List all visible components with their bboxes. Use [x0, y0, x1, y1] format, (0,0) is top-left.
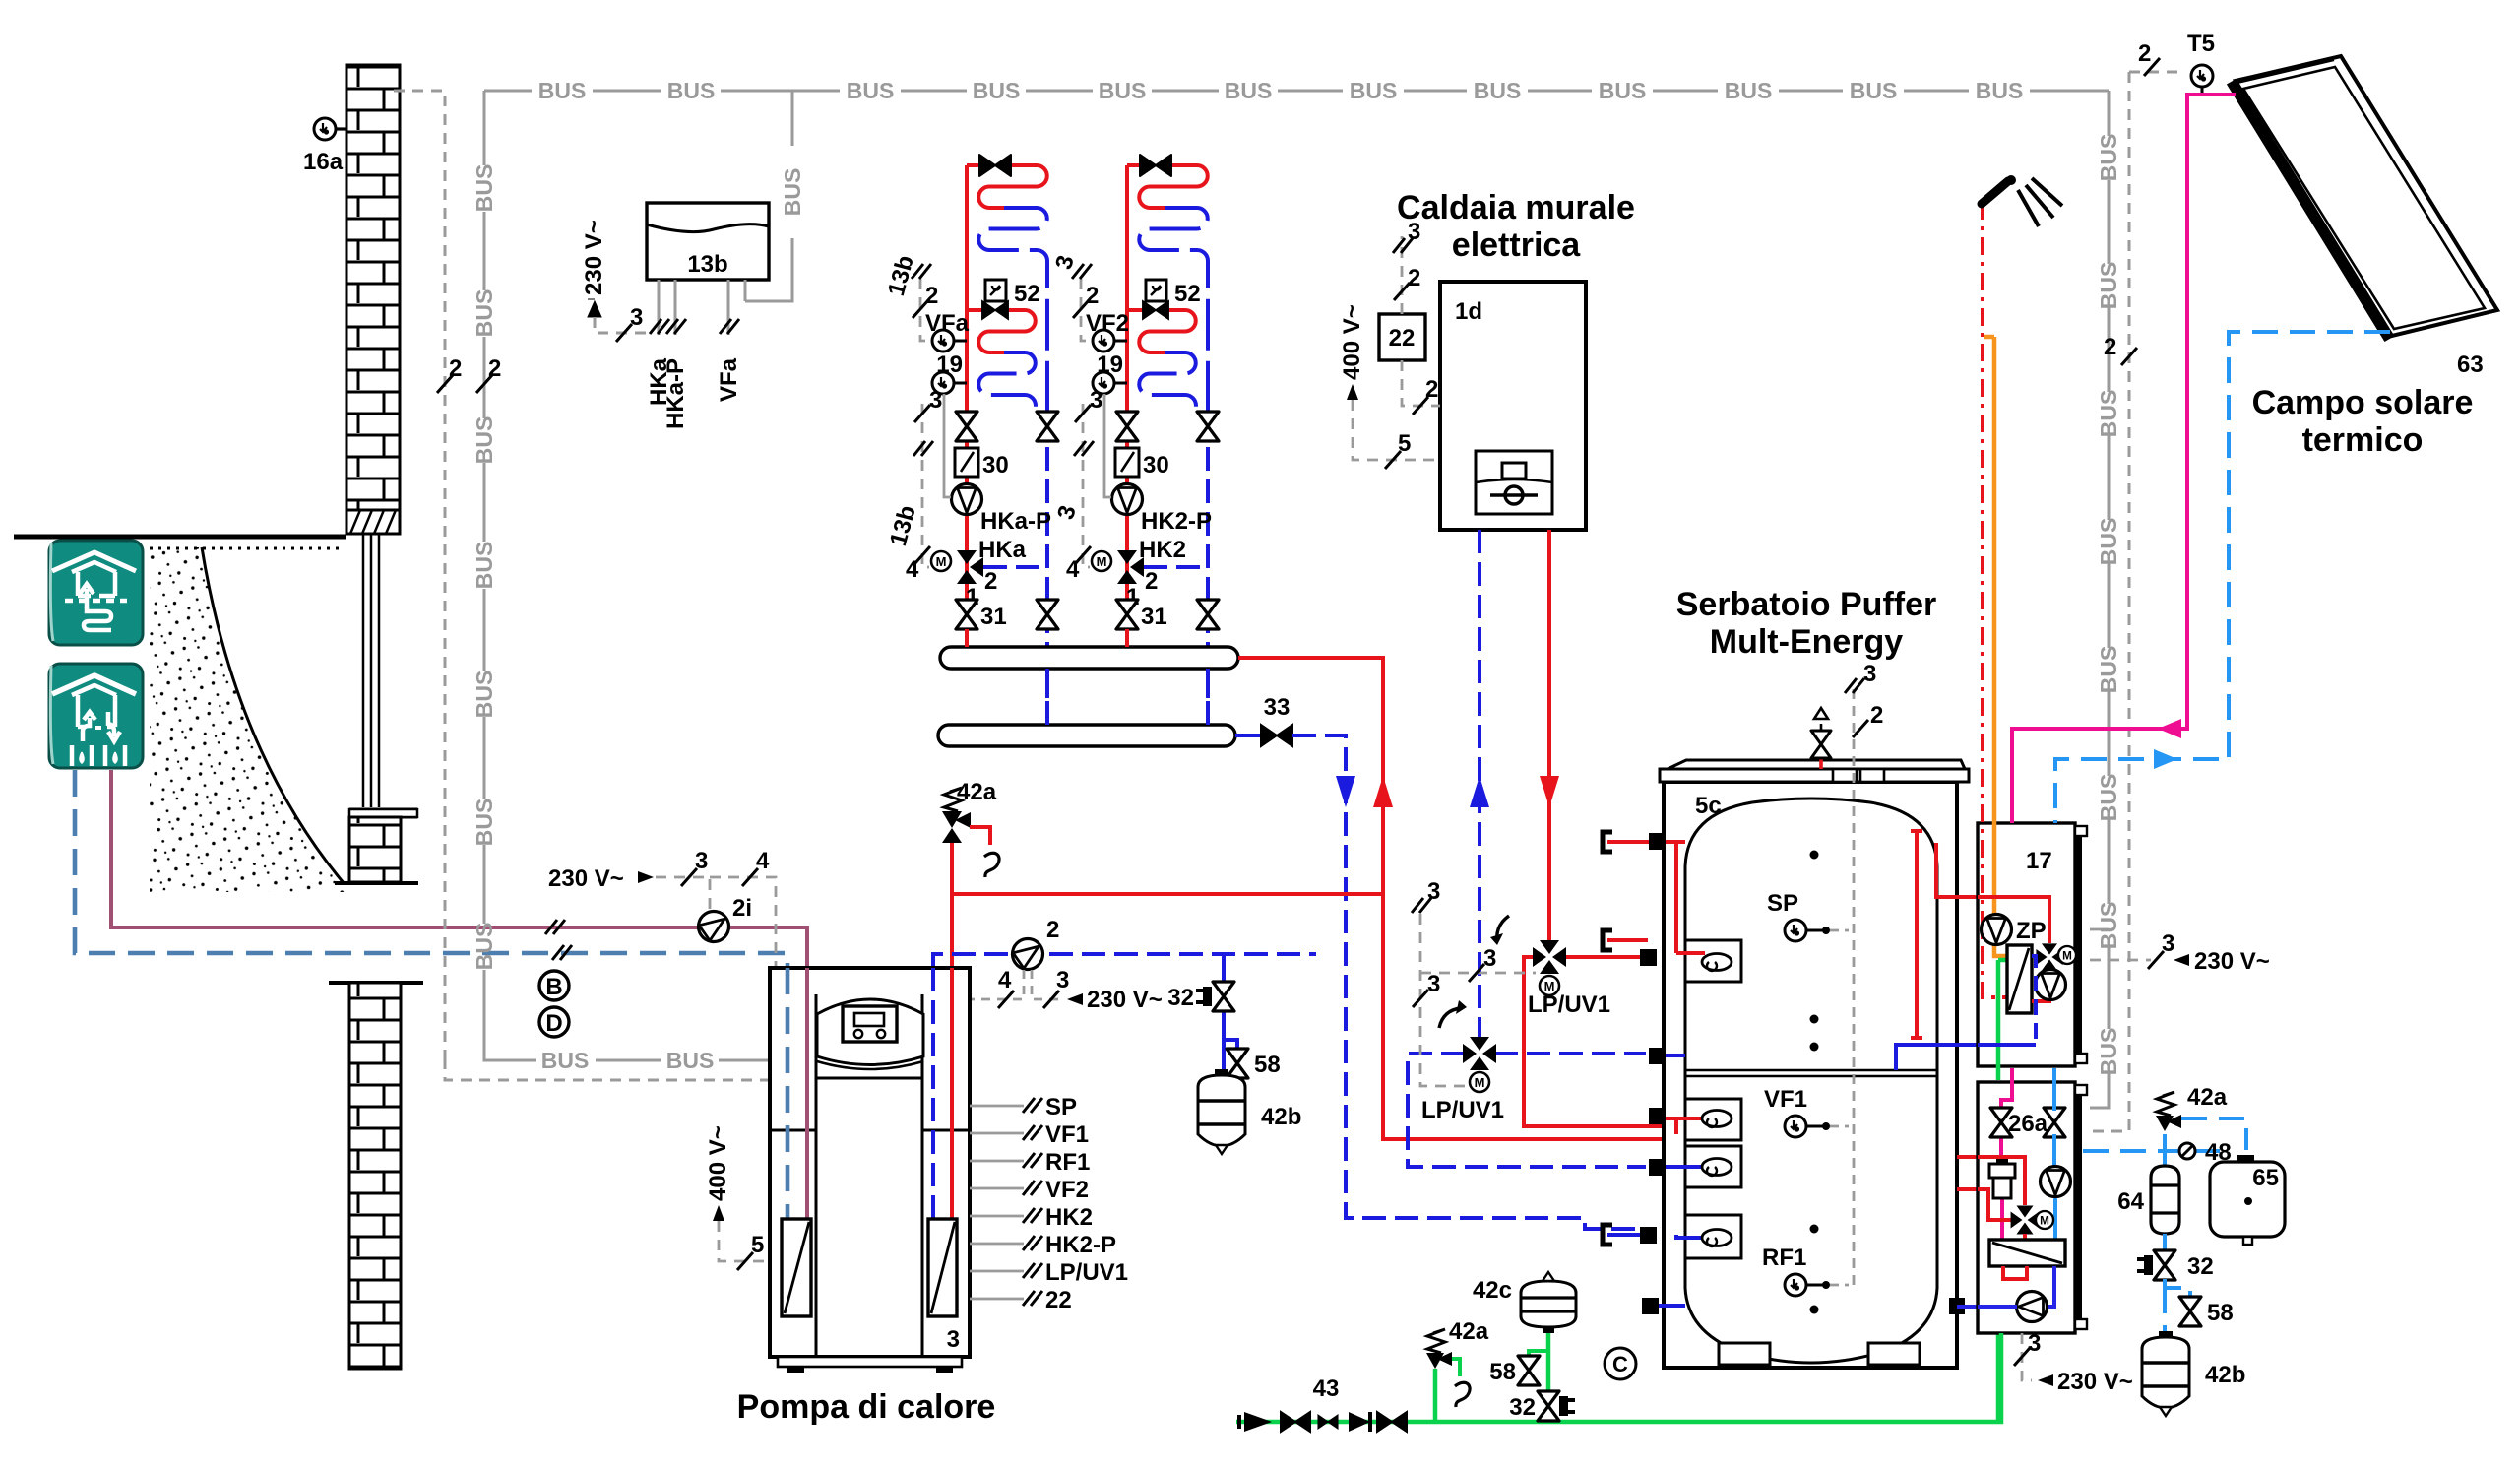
- wire red 42a outlet: [970, 827, 990, 845]
- svg-text:termico: termico: [2302, 421, 2424, 459]
- wire blue inside heat pump: [931, 968, 935, 1219]
- tank port box hot top: [1685, 940, 1741, 982]
- valve 58 left: [1227, 1049, 1248, 1078]
- sensor 19 circuit2: [1114, 382, 1127, 385]
- wire gray dashed from wall top: [394, 91, 445, 1058]
- wire gray sensor spine: [1853, 689, 1856, 1285]
- svg-text:BUS: BUS: [1725, 78, 1773, 103]
- wire gray 22 to boiler: [1402, 360, 1440, 406]
- wire gray 400V to boiler: [1353, 400, 1440, 460]
- wire 13b pin HKa: [658, 280, 661, 335]
- svg-text:5c: 5c: [1695, 793, 1722, 819]
- wire red valve to exchanger: [2023, 1234, 2027, 1240]
- diverter valve LP/UV1 upper: [1533, 940, 1566, 974]
- svg-text:Caldaia murale: Caldaia murale: [1397, 189, 1635, 226]
- svg-text:BUS: BUS: [2096, 390, 2121, 438]
- valve bottom fourth: [1377, 1412, 1407, 1432]
- floor loop circuit1 upper blue: [978, 208, 1047, 415]
- wire lightblue 32 to 42b: [2165, 1279, 2190, 1335]
- svg-text:VFa: VFa: [925, 310, 970, 337]
- safety group 42a bottom: [1433, 1369, 1438, 1422]
- wire BUS left vertical: [483, 91, 486, 1039]
- svg-text:HKa-P: HKa-P: [662, 358, 689, 429]
- tank 65: [2210, 1162, 2285, 1237]
- air separator: [1989, 1164, 2015, 1178]
- wires gray pump 2: [971, 970, 1024, 999]
- svg-text:Pompa di calore: Pompa di calore: [737, 1388, 996, 1426]
- svg-text:SP: SP: [1767, 890, 1798, 917]
- pump 2: [1006, 932, 1048, 975]
- tank safety valve: [1819, 754, 1823, 769]
- sensor VFa: [954, 340, 967, 343]
- svg-text:3: 3: [630, 304, 643, 331]
- svg-text:26a: 26a: [2008, 1111, 2048, 1137]
- floor loop circuit2 lower blue: [1139, 352, 1208, 415]
- svg-text:22: 22: [1389, 325, 1416, 352]
- svg-text:2i: 2i: [732, 895, 752, 922]
- wire blue return circuit1 vertical: [1045, 415, 1049, 725]
- svg-text:19: 19: [1097, 352, 1123, 378]
- relay 22 box: [1379, 314, 1425, 360]
- svg-text:BUS: BUS: [973, 78, 1021, 103]
- tank port box lower blue: [1685, 1215, 1741, 1258]
- svg-text:5: 5: [1398, 430, 1411, 457]
- svg-text:3: 3: [1863, 661, 1876, 687]
- heat pump unit 3: [770, 968, 970, 1357]
- expansion vessel 42c: [1546, 1329, 1551, 1415]
- tank inner vessel: [1685, 799, 1937, 1075]
- wire red dash-dot circulation: [1983, 202, 2007, 997]
- svg-text:VF2: VF2: [1086, 310, 1129, 337]
- heat pump terminal LP/UV1: [970, 1270, 1024, 1273]
- valve circuit2 return lower: [1197, 600, 1219, 629]
- svg-text:31: 31: [1141, 604, 1167, 630]
- svg-text:BUS: BUS: [472, 923, 497, 971]
- double slash on steel-blue: [552, 945, 572, 960]
- svg-text:4: 4: [756, 848, 770, 874]
- svg-text:400 V~: 400 V~: [1339, 304, 1365, 380]
- safety valve 42a right: [2156, 1092, 2181, 1131]
- heat pump terminal HK2: [970, 1215, 1024, 1218]
- svg-text:HKa: HKa: [978, 537, 1027, 563]
- brick wall middle column: [349, 817, 401, 882]
- wire 13b pin BUS: [744, 280, 747, 301]
- svg-text:BUS: BUS: [2096, 902, 2121, 950]
- svg-text:32: 32: [1509, 1394, 1536, 1421]
- expansion vessel 42b left: [1198, 1069, 1245, 1154]
- svg-text:2: 2: [1086, 283, 1099, 309]
- tank port box mid blue: [1685, 1146, 1741, 1187]
- svg-text:BUS: BUS: [1350, 78, 1398, 103]
- wire blue lower valve to tank: [1494, 1052, 1646, 1055]
- pump 17: [2036, 970, 2066, 1000]
- wires gray LP/UV1: [1420, 914, 1466, 1086]
- wire red valve to tank top port: [1565, 955, 1648, 959]
- svg-text:58: 58: [1254, 1052, 1281, 1078]
- valve circuit2 return: [1197, 412, 1219, 441]
- stub blue upper return: [1649, 1048, 1666, 1064]
- heat pump terminal RF1: [970, 1160, 1024, 1163]
- svg-text:BUS: BUS: [472, 416, 497, 465]
- wire red valve to tank mid port: [1524, 957, 1701, 1126]
- manifold supply: [940, 647, 1238, 669]
- svg-text:BUS: BUS: [1976, 78, 2024, 103]
- svg-text:31: 31: [980, 604, 1007, 630]
- tank level dots: [1810, 851, 1819, 860]
- svg-text:VF1: VF1: [1764, 1086, 1807, 1113]
- valve 26a right: [2044, 1108, 2065, 1137]
- wire BUS left corner to heat pump: [484, 1039, 770, 1060]
- boiler 1d box: [1440, 282, 1586, 530]
- wire blue branch to valve 58 left: [1224, 1040, 1237, 1050]
- floor loop circuit2 lower red: [1127, 310, 1196, 352]
- svg-text:BUS: BUS: [1225, 78, 1273, 103]
- svg-text:LP/UV1: LP/UV1: [1045, 1259, 1128, 1286]
- svg-text:2: 2: [1408, 265, 1420, 291]
- svg-text:16a: 16a: [303, 149, 344, 175]
- valve 32 bottom: [1538, 1391, 1559, 1421]
- svg-text:3: 3: [695, 848, 708, 874]
- arrow blue down: [1336, 776, 1355, 807]
- svg-text:4: 4: [998, 967, 1012, 993]
- svg-text:52: 52: [1174, 281, 1201, 307]
- earth stipple: [150, 547, 346, 892]
- svg-text:3: 3: [2162, 930, 2174, 957]
- wire red circuit1 to manifold: [965, 629, 969, 647]
- wire blue mixer link circuit2: [1144, 565, 1208, 569]
- heat pump display panel: [817, 999, 923, 1065]
- sensor VF2: [1114, 340, 1127, 343]
- svg-text:HK2: HK2: [1139, 537, 1186, 563]
- thermostat valve 52 circuit2: [1146, 280, 1166, 301]
- svg-text:T5: T5: [2187, 31, 2215, 57]
- svg-text:52: 52: [1014, 281, 1040, 307]
- wire BUS 13b drop: [745, 91, 792, 301]
- svg-text:22: 22: [1045, 1287, 1072, 1313]
- valve circuit1 return: [1037, 412, 1058, 441]
- floor loop circuit2 upper blue: [1139, 208, 1208, 415]
- stub blue bottom right: [1949, 1298, 1965, 1314]
- window frame: [363, 534, 379, 807]
- wire purple inside heat pump: [805, 968, 809, 1219]
- wire blue return circuit2 vertical: [1206, 415, 1210, 725]
- svg-text:230 V~: 230 V~: [548, 865, 624, 892]
- heat pump terminal HK2-P: [970, 1243, 1024, 1246]
- brick wall lower column: [329, 981, 423, 985]
- double slash pin HKa: [650, 319, 669, 334]
- svg-text:LP/UV1: LP/UV1: [1528, 991, 1610, 1018]
- wire red caldaia supply: [1547, 530, 1551, 941]
- svg-text:C: C: [1612, 1352, 1628, 1376]
- svg-text:63: 63: [2457, 352, 2484, 378]
- svg-text:230 V~: 230 V~: [2057, 1369, 2133, 1395]
- wire gray 22 top: [1401, 236, 1404, 314]
- svg-text:3: 3: [947, 1326, 960, 1353]
- svg-text:3: 3: [929, 387, 942, 414]
- wire green cold feed: [1996, 960, 2001, 1422]
- heat exchanger 17: [2007, 945, 2032, 1013]
- mixing valve solar: [2011, 1206, 2040, 1235]
- valve circuit2 supply: [1116, 412, 1138, 441]
- slash 2 on gray dashed left: [437, 375, 453, 393]
- svg-text:BUS: BUS: [1099, 78, 1147, 103]
- wire magenta solar supply inside: [2001, 1068, 2012, 1240]
- wire 13b pin VFa: [727, 280, 730, 335]
- sensor 19 circuit1: [954, 382, 967, 385]
- wire steel-blue inside heat pump: [786, 968, 790, 1219]
- wire blue heat pump return riser: [933, 954, 1316, 968]
- wire lightblue solar return: [2055, 332, 2390, 823]
- wire steel-blue brine return: [75, 770, 787, 1219]
- heat pump inner column: [816, 994, 922, 1357]
- wall sill hatch: [346, 510, 400, 534]
- wire red inside wall top: [1607, 842, 1685, 953]
- svg-text:5: 5: [751, 1232, 764, 1258]
- floor loop circuit2 upper red: [1127, 165, 1208, 208]
- icon well heat source: [49, 664, 143, 768]
- svg-text:BUS: BUS: [472, 671, 497, 719]
- svg-text:BUS: BUS: [2096, 1028, 2121, 1076]
- svg-text:Serbatoio Puffer: Serbatoio Puffer: [1676, 586, 1936, 623]
- wire lightblue solar return inside: [2054, 1068, 2055, 1240]
- check valve: [1349, 1412, 1370, 1432]
- icon ground-loop heat source: [49, 541, 143, 645]
- boiler pump module: [1476, 451, 1552, 514]
- svg-text:BUS: BUS: [538, 78, 587, 103]
- svg-text:42a: 42a: [957, 779, 997, 805]
- svg-text:BUS: BUS: [472, 542, 497, 590]
- heat pump left evaporator: [782, 1219, 811, 1316]
- svg-text:30: 30: [982, 452, 1009, 479]
- tank feet: [1719, 1343, 1770, 1365]
- wire red inside heat pump: [950, 968, 954, 1219]
- heat pump terminal VF2: [970, 1187, 1024, 1190]
- svg-text:VF2: VF2: [1045, 1177, 1089, 1203]
- wire red to lower station: [1957, 1155, 2025, 1159]
- SECTION-BUS: [484, 91, 2109, 1108]
- wire magenta solar supply: [2012, 95, 2236, 823]
- svg-text:230 V~: 230 V~: [1087, 987, 1163, 1013]
- svg-text:3: 3: [1427, 971, 1440, 997]
- svg-text:BUS: BUS: [847, 78, 895, 103]
- svg-text:64: 64: [2117, 1188, 2144, 1215]
- svg-text:RF1: RF1: [1762, 1245, 1806, 1271]
- heat pump terminal SP: [970, 1105, 1024, 1108]
- drain funnel: [984, 853, 999, 877]
- svg-text:ZP: ZP: [2016, 918, 2047, 944]
- valve circuit1 top: [979, 155, 1011, 176]
- wire green domestic water main: [1236, 1333, 2001, 1422]
- svg-text:BUS: BUS: [1599, 78, 1647, 103]
- wire red supply circuit2: [1125, 165, 1129, 647]
- svg-text:3: 3: [1056, 967, 1069, 993]
- svg-text:1d: 1d: [1455, 298, 1482, 325]
- wire gray 230V to pump 2i: [656, 877, 710, 910]
- svg-text:42a: 42a: [1449, 1318, 1489, 1345]
- valve 31 circuit2: [1116, 600, 1138, 629]
- svg-text:BUS: BUS: [1474, 78, 1522, 103]
- wire lightblue 64 to 32: [2163, 1234, 2167, 1251]
- double slash on purple: [545, 920, 565, 934]
- wire red supply main: [1238, 658, 1713, 1139]
- floor loop circuit1 upper red: [967, 165, 1047, 208]
- svg-text:42a: 42a: [2187, 1084, 2228, 1111]
- svg-text:65: 65: [2252, 1165, 2279, 1191]
- wire blue secondary 17: [2032, 956, 2036, 1045]
- drain funnel bottom: [1455, 1382, 1470, 1407]
- fresh water unit 17 box: [1978, 823, 2075, 1066]
- sensor 16a: [314, 118, 336, 140]
- floor loop circuit1 lower red: [967, 310, 1036, 352]
- svg-text:2: 2: [488, 355, 501, 382]
- heat pump terminal VF1: [970, 1132, 1024, 1135]
- mixing valve HK2: [1117, 550, 1144, 584]
- valve circuit1 supply: [956, 412, 977, 441]
- wire gray 230V to heat pump: [710, 877, 776, 968]
- svg-text:4: 4: [906, 556, 919, 583]
- svg-text:SP: SP: [1045, 1094, 1077, 1120]
- svg-text:42b: 42b: [1261, 1104, 1301, 1130]
- svg-text:D: D: [545, 1010, 562, 1037]
- arrow red up: [1373, 776, 1393, 807]
- arrow lightblue: [2154, 749, 2177, 769]
- pump HK2-P: [1112, 484, 1143, 515]
- svg-text:2: 2: [2138, 40, 2151, 67]
- wire gray dashed lower corner to heat pump: [445, 1058, 770, 1080]
- wires gray circuit1: [920, 279, 930, 567]
- svg-text:LP/UV1: LP/UV1: [1421, 1097, 1504, 1123]
- wire gray dashed right spine: [2090, 72, 2129, 1131]
- pump ZP: [1982, 915, 2012, 945]
- solar collector 63: [2229, 56, 2497, 340]
- svg-text:elettrica: elettrica: [1452, 226, 1581, 264]
- svg-text:230 V~: 230 V~: [581, 220, 607, 295]
- svg-text:2: 2: [449, 355, 462, 382]
- wire blue manifold bridge circuit1: [1045, 669, 1049, 725]
- svg-text:BUS: BUS: [541, 1048, 590, 1073]
- brick wall upper column: [346, 65, 400, 510]
- wire lightblue expansion line: [2083, 1149, 2220, 1153]
- pump 2i: [692, 905, 734, 947]
- wire blue manifold bridge circuit2: [1206, 669, 1210, 725]
- svg-text:2: 2: [2104, 334, 2116, 360]
- tank port box mid hot: [1685, 1099, 1741, 1140]
- svg-text:B: B: [545, 974, 562, 1000]
- manifold return: [938, 725, 1235, 746]
- wire red heat pump supply riser: [950, 843, 954, 968]
- svg-text:13b: 13b: [687, 251, 727, 278]
- arrow red down caldaia: [1540, 776, 1559, 807]
- wire 230V to 13b: [595, 317, 647, 333]
- sensor RF1: [1785, 1274, 1806, 1296]
- valve 58 bottom: [1529, 1351, 1548, 1357]
- svg-text:32: 32: [2187, 1253, 2214, 1280]
- arrow green inlet: [1244, 1412, 1272, 1432]
- wire red primary 17: [1978, 897, 2049, 1001]
- wire red internal to unit 17: [1936, 843, 2049, 897]
- valve 26a left: [1990, 1108, 2012, 1137]
- valve 32 right: [2154, 1250, 2175, 1280]
- safety valve 42a: [942, 788, 971, 843]
- svg-text:HK2-P: HK2-P: [1141, 508, 1212, 535]
- svg-text:HKa-P: HKa-P: [980, 508, 1051, 535]
- svg-text:BUS: BUS: [472, 799, 497, 847]
- wire blue lower valve left branch: [1408, 1054, 1646, 1167]
- svg-text:2: 2: [984, 568, 997, 595]
- svg-text:BUS: BUS: [1850, 78, 1898, 103]
- slash 2 top: [2144, 58, 2160, 76]
- svg-text:33: 33: [1264, 694, 1291, 721]
- valve circuit2 top: [1140, 155, 1171, 176]
- thermostat valve 52 circuit1: [985, 280, 1006, 301]
- expansion vessel 42b right: [2142, 1331, 2189, 1416]
- wire red supply top run: [952, 892, 1383, 896]
- slash 2 on gray dashed right spine: [2121, 348, 2137, 365]
- svg-text:3: 3: [1427, 878, 1440, 905]
- svg-text:30: 30: [1143, 452, 1169, 479]
- svg-text:2: 2: [1425, 376, 1438, 403]
- svg-text:3: 3: [1408, 219, 1420, 245]
- wire red exchanger U: [2003, 1266, 2027, 1279]
- tank body: [1664, 782, 1957, 1368]
- floor loop circuit1 lower blue: [978, 352, 1047, 415]
- tank lid: [1668, 760, 1965, 769]
- svg-text:BUS: BUS: [2096, 646, 2121, 694]
- svg-text:BUS: BUS: [667, 78, 716, 103]
- heat exchanger solar: [1989, 1240, 2065, 1266]
- wire lightblue 42a to 65: [2181, 1118, 2246, 1150]
- heat pump right condenser: [928, 1219, 957, 1316]
- svg-text:BUS: BUS: [2096, 774, 2121, 822]
- svg-text:VFa: VFa: [716, 357, 742, 402]
- wire darkblue exchanger to pump: [2047, 1266, 2054, 1307]
- diverter valve LP/UV1 lower: [1463, 1037, 1496, 1070]
- svg-text:BUS: BUS: [2096, 518, 2121, 566]
- valve 58 right: [2179, 1297, 2201, 1326]
- shower head: [1982, 181, 2008, 204]
- solar station lower unit box: [1978, 1082, 2075, 1333]
- svg-text:230 V~: 230 V~: [2194, 948, 2270, 975]
- node B: [539, 971, 569, 1000]
- wire gray 230V unit 17: [2090, 959, 2151, 962]
- wire 13b pin HKa-P: [674, 280, 677, 335]
- svg-text:4: 4: [1066, 556, 1080, 583]
- wire blue 33 to descent: [1292, 735, 1646, 1229]
- svg-text:2: 2: [1145, 568, 1158, 595]
- svg-text:19: 19: [936, 352, 963, 378]
- svg-text:HK2-P: HK2-P: [1045, 1232, 1116, 1258]
- ground line: [14, 535, 346, 540]
- window sill ledge: [349, 809, 417, 817]
- svg-text:RF1: RF1: [1045, 1149, 1090, 1176]
- svg-text:Mult-Energy: Mult-Energy: [1710, 623, 1904, 661]
- wire gray dashed T5 link: [2129, 71, 2183, 74]
- earth top dotted edge: [150, 547, 345, 550]
- sensor VF1: [1785, 1116, 1806, 1137]
- heat pump terminal 22: [970, 1298, 1024, 1301]
- valve circuit1 return lower: [1037, 600, 1058, 629]
- stub LP/UV1 hot: [1603, 930, 1612, 950]
- svg-text:58: 58: [2207, 1300, 2234, 1326]
- wire red supply circuit1: [965, 165, 969, 647]
- mixing valve HKa: [957, 550, 983, 584]
- wire gray 400V to heat pump: [719, 1221, 770, 1261]
- wire red internal charge pipe: [1911, 831, 1922, 1038]
- tank divider: [1685, 1070, 1937, 1076]
- arrow blue up caldaia: [1470, 776, 1489, 807]
- heat pump base: [778, 1357, 962, 1367]
- svg-text:Campo solare: Campo solare: [2252, 384, 2474, 421]
